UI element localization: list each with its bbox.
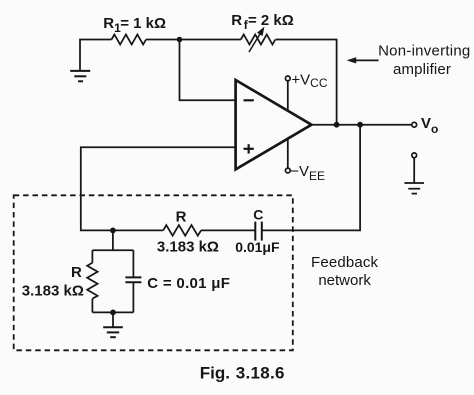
svg-text:C: C — [253, 207, 263, 223]
op-amp U1 — [236, 80, 312, 169]
wire node D to parallel network — [112, 230, 114, 250]
resistor R (series 3.183k) — [163, 225, 201, 236]
svg-text:3.183 kΩ: 3.183 kΩ — [157, 239, 219, 256]
svg-text:R: R — [176, 208, 187, 225]
wire parallel bottom bar — [92, 311, 133, 313]
wire op-amp output to Vo terminal — [312, 124, 412, 126]
svg-text:network: network — [318, 272, 371, 289]
svg-text:3.183 kΩ: 3.183 kΩ — [22, 282, 84, 299]
ground (top-left) — [70, 40, 111, 82]
resistor Rf (variable) — [241, 27, 276, 52]
-VEE pin wire — [287, 138, 289, 168]
Vo terminal circle — [412, 122, 417, 127]
+VCC terminal circle — [285, 76, 290, 81]
resistor R1 — [112, 35, 147, 45]
wire non-inverting input — [81, 147, 236, 230]
svg-text:R: R — [71, 264, 82, 281]
svg-text:Feedback: Feedback — [311, 254, 378, 271]
op-amp non-inverting pin label + — [244, 144, 254, 153]
+VCC pin wire — [287, 81, 289, 111]
node B (feedback junction on output) — [334, 122, 340, 128]
svg-text:amplifier: amplifier — [393, 61, 451, 78]
svg-text:R1= 1 kΩ: R1= 1 kΩ — [103, 15, 166, 35]
node D (junction series/parallel) — [110, 228, 116, 234]
ground (right, below Vo) — [404, 153, 424, 194]
wire node C down to feedback network — [262, 125, 360, 231]
node E (bottom of parallel network) — [110, 310, 116, 316]
wire cap to series R — [201, 229, 256, 231]
resistor R (parallel 3.183k, vertical) — [87, 250, 97, 312]
svg-text:Rf= 2 kΩ: Rf= 2 kΩ — [231, 12, 294, 32]
node C (feedback network junction on output) — [357, 122, 363, 128]
node A (junction R1/Rf/inverting input) — [177, 37, 183, 43]
arrow to non-inverting amplifier — [347, 57, 379, 63]
wire R1 to node A — [146, 39, 180, 41]
svg-text:Fig.3.18.6: Fig.3.18.6 — [200, 363, 285, 382]
svg-text:0.01μF: 0.01μF — [235, 239, 280, 255]
capacitor C (parallel) — [125, 250, 141, 312]
wire node A to Rf — [180, 39, 241, 41]
op-amp inverting pin label - — [244, 99, 254, 101]
capacitor C (series) — [255, 222, 261, 241]
svg-text:Non-inverting: Non-inverting — [378, 43, 470, 60]
wire series R to node D — [113, 229, 163, 231]
ground (feedback network) — [103, 312, 123, 337]
wire node A to inverting input — [180, 40, 236, 101]
svg-text:C = 0.01 μF: C = 0.01 μF — [147, 275, 230, 292]
wire Rf to feedback corner — [276, 40, 337, 125]
wire parallel top bar — [92, 249, 133, 251]
-VEE terminal circle — [285, 168, 290, 173]
feedback network dashed box — [14, 195, 293, 350]
